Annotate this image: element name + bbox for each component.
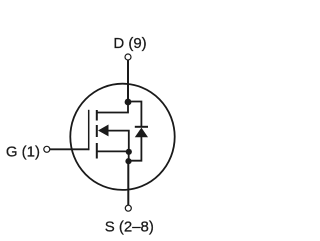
source terminal pins 2-8 bbox=[125, 205, 131, 211]
svg-text:S (2–8): S (2–8) bbox=[105, 218, 154, 235]
wire junction dots link bbox=[128, 152, 130, 161]
svg-text:D (9): D (9) bbox=[113, 35, 146, 52]
transistor Q1 channel segment drain bbox=[96, 110, 98, 121]
wire body to source junction bbox=[109, 131, 129, 152]
wire source electrode bbox=[97, 150, 129, 152]
svg-text:G (1): G (1) bbox=[6, 144, 40, 161]
transistor envelope circle bbox=[70, 84, 174, 190]
diode D1 cathode bar bbox=[135, 126, 148, 128]
diode D1 body bbox=[135, 128, 148, 138]
wire drain lead D to junction bbox=[127, 60, 129, 102]
drain terminal pin 9 bbox=[125, 54, 131, 60]
wire gate lead from G terminal bbox=[50, 148, 90, 150]
wire drain branch to diode cathode bbox=[128, 102, 141, 127]
wire source lead to S terminal bbox=[127, 161, 129, 205]
gate terminal pin 1 bbox=[44, 146, 50, 152]
wire drain to channel electrode bbox=[97, 102, 128, 113]
transistor Q1 channel segment source bbox=[96, 143, 98, 159]
node drain junction dot bbox=[125, 99, 132, 106]
transistor Q1 body arrow bbox=[98, 125, 109, 137]
transistor Q1 channel segment body bbox=[96, 125, 98, 137]
node source junction dot upper bbox=[126, 149, 132, 155]
node source junction dot lower bbox=[125, 158, 131, 164]
transistor Q1 gate electrode bbox=[88, 110, 90, 150]
wire diode anode to source junction bbox=[129, 137, 142, 161]
